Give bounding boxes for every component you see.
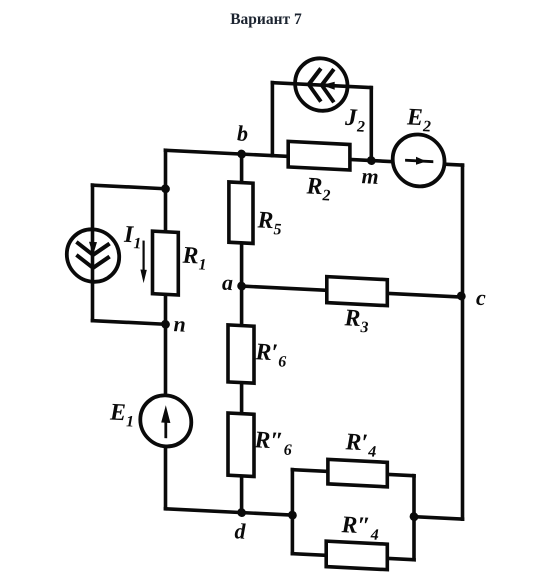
svg-text:E2: E2 [406,104,431,135]
svg-text:d: d [235,518,247,544]
resistor R'6 [228,325,254,383]
node R4 left junction [288,511,297,520]
svg-text:J2: J2 [344,105,365,136]
svg-text:R′6: R′6 [255,339,287,371]
resistor R''4 [326,541,387,570]
wire top b-m-E2 [166,150,463,165]
arrow I1 current direction [140,242,146,284]
node d [237,508,246,517]
resistor R1 [153,231,179,295]
svg-text:a: a [222,270,233,296]
resistor R'4 [328,459,387,486]
node c [457,291,466,300]
node a [237,281,246,290]
wire left column R1 E1 [164,150,168,509]
node m [367,156,376,165]
wire R4 group left vertical [291,470,295,554]
svg-text:m: m [362,163,379,189]
wire left loop vertical through I1 source [91,185,95,321]
wire a to c with R3 [242,286,463,297]
resistor R2 [288,141,350,170]
wire R4 group right vertical [412,476,416,560]
node n [161,320,170,329]
EMF source E1 [140,394,191,448]
current source I1 (left) [67,228,119,283]
resistor R''6 [228,413,254,477]
svg-text:R′4: R′4 [345,429,377,461]
svg-text:R″4: R″4 [341,512,379,544]
wire left loop top [93,185,166,189]
svg-text:R″6: R″6 [254,427,292,459]
svg-text:R1: R1 [182,243,207,274]
svg-text:Вариант 7: Вариант 7 [230,11,302,28]
svg-text:R3: R3 [344,305,369,336]
current source J2 [295,57,347,112]
wire J2 loop right vertical to m [369,88,373,161]
resistor R3 [327,277,388,306]
wire left loop bottom to n [93,321,166,325]
wire J2 loop left vertical [271,83,275,156]
svg-text:R2: R2 [306,173,331,204]
wire center column b-a-d [240,154,244,513]
wire bottom d [166,509,293,515]
node junction left loop top [161,184,170,193]
svg-text:b: b [237,120,248,146]
wire R4 junction to right column [414,517,463,519]
EMF source E2 [393,133,445,187]
wire right vertical c column [461,165,465,519]
svg-text:c: c [476,285,486,310]
svg-text:R5: R5 [257,207,282,238]
node R4 right junction [410,512,419,521]
resistor R5 [229,182,253,244]
node b [237,149,246,158]
wire R4 upper branch [292,470,414,476]
wire J2 horizontal through source [272,83,371,88]
wire R4 lower branch [292,554,414,560]
svg-text:I1: I1 [123,222,141,253]
svg-text:n: n [174,311,186,337]
svg-text:E1: E1 [109,399,134,430]
